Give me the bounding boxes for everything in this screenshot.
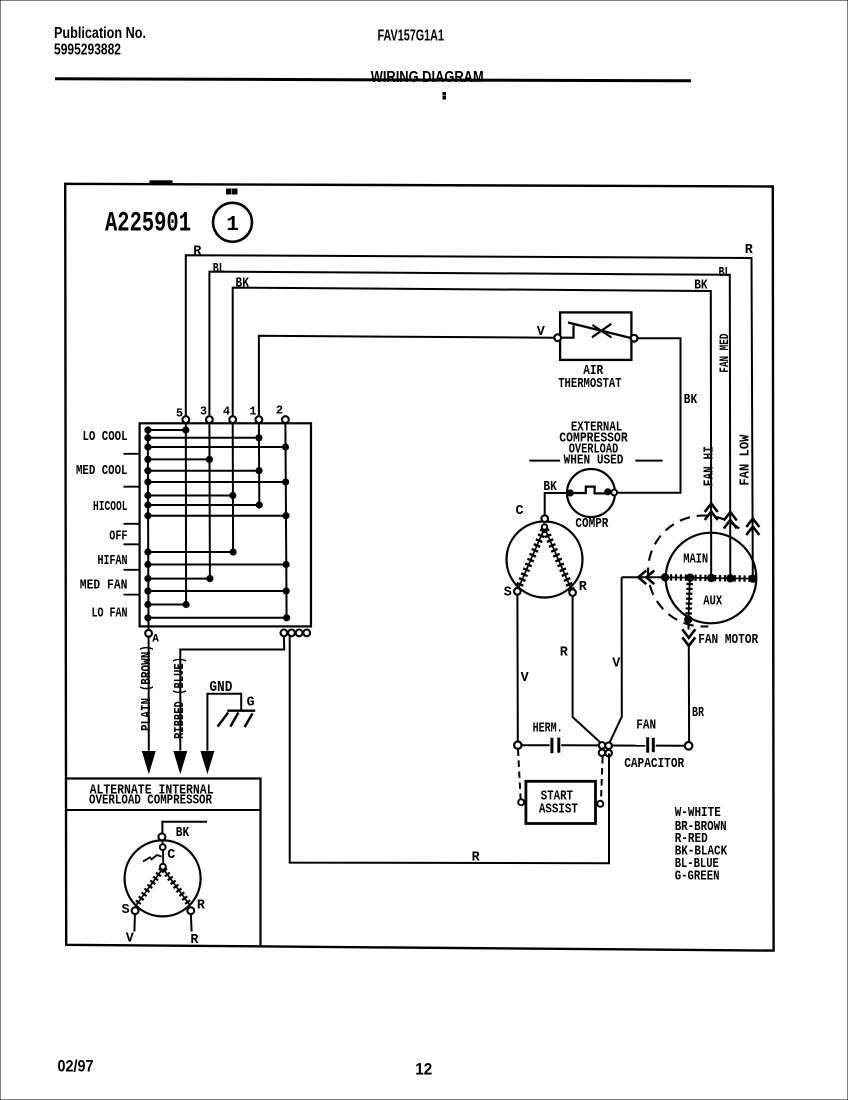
svg-text:2: 2 (276, 404, 283, 418)
capacitor junction cluster (599, 742, 606, 749)
svg-text:FAN MED: FAN MED (718, 333, 732, 372)
switch contact row 1 (148, 429, 186, 431)
svg-text:A225901: A225901 (105, 209, 191, 240)
callout circle 1 (213, 203, 252, 242)
wire ribbed (blue) (180, 636, 284, 750)
switch contact row 15 (148, 617, 287, 619)
svg-text:MED COOL: MED COOL (76, 463, 128, 479)
switch common column (147, 430, 150, 630)
svg-text:BK: BK (236, 277, 250, 292)
air thermostat right terminal (631, 335, 638, 342)
alternate overload box (66, 779, 261, 947)
herm capacitor (522, 744, 550, 746)
svg-text:MAIN: MAIN (683, 553, 708, 568)
switch group tick 4 (124, 543, 140, 545)
svg-text:FAN HI: FAN HI (702, 446, 717, 486)
scan artifact above top border (150, 181, 172, 184)
switch contact row 14 (148, 604, 186, 606)
svg-text:1: 1 (249, 405, 256, 419)
svg-text:CAPACITOR: CAPACITOR (624, 757, 685, 772)
switch contact row 9 (148, 515, 286, 517)
switch bus line from terminal 1 (258, 423, 260, 505)
svg-text:BK: BK (694, 279, 708, 294)
header rule (55, 79, 691, 81)
herm terminal (514, 742, 521, 749)
svg-text:R: R (193, 244, 202, 259)
alternate motor BK stub (162, 822, 207, 834)
svg-text:BK: BK (176, 826, 190, 841)
alternate motor circle (125, 840, 201, 916)
svg-text:A: A (152, 634, 159, 646)
alternate motor terminal R (187, 907, 194, 914)
wire V to fan main (left) (622, 576, 666, 578)
svg-text:ASSIST: ASSIST (539, 802, 578, 817)
compressor start winding (545, 530, 571, 591)
svg-text:G: G (247, 695, 255, 710)
start assist left lead (dashed) (518, 750, 521, 799)
svg-text:FAN LOW: FAN LOW (738, 434, 753, 486)
svg-text:WIRING DIAGRAM: WIRING DIAGRAM (371, 69, 484, 86)
svg-text:AUX: AUX (703, 595, 723, 610)
svg-text:R: R (579, 580, 588, 595)
switch terminal 3 (206, 416, 213, 423)
svg-text:FAN MOTOR: FAN MOTOR (698, 633, 759, 648)
alternate motor windings (136, 870, 162, 906)
switch bus line from terminal 4 (232, 423, 234, 552)
svg-text:R: R (197, 899, 206, 914)
wire R bottom run (290, 636, 609, 863)
start assist right lead (dashed) (601, 757, 603, 800)
wire terminal 1 to air thermostat (259, 336, 554, 420)
svg-text:THERMOSTAT: THERMOSTAT (558, 377, 621, 392)
switch contact row 10 (148, 551, 233, 553)
svg-text:02/97: 02/97 (58, 1057, 94, 1076)
svg-text:S: S (122, 903, 130, 918)
svg-text:WHEN USED: WHEN USED (564, 454, 624, 469)
winding tap dots (661, 574, 668, 581)
fan motor main winding (665, 577, 755, 578)
svg-text:OVERLOAD COMPRESSOR: OVERLOAD COMPRESSOR (89, 793, 213, 808)
svg-text:4: 4 (223, 405, 230, 419)
wire plain (brown) (148, 637, 150, 751)
switch contact row 2 (148, 437, 259, 439)
switch group tick 2 (124, 486, 140, 488)
svg-text:OFF: OFF (109, 529, 127, 545)
svg-text:BL: BL (719, 266, 731, 281)
svg-text:PLAIN (BROWN): PLAIN (BROWN) (140, 645, 155, 731)
fan motor aux winding (689, 578, 690, 619)
start assist box (526, 781, 596, 823)
switch terminal 2 (282, 416, 289, 423)
wire S to herm terminal (V) (516, 595, 518, 742)
switch group tick 3 (124, 523, 140, 525)
svg-text:LO COOL: LO COOL (83, 429, 128, 445)
switch bottom connector circles (281, 630, 288, 637)
svg-text:C: C (516, 504, 524, 519)
svg-text:FAV157G1A1: FAV157G1A1 (378, 28, 445, 45)
fan capacitor (612, 745, 645, 747)
svg-text:G-GREEN: G-GREEN (675, 870, 720, 885)
switch contact row 8 (148, 504, 259, 506)
svg-text:R: R (560, 645, 569, 660)
svg-text:R: R (472, 851, 481, 866)
switch contact row 7 (148, 495, 233, 497)
svg-text:HERM.: HERM. (533, 721, 563, 736)
compressor terminal R (569, 589, 576, 596)
svg-text:5: 5 (176, 407, 183, 421)
svg-text:BL: BL (213, 262, 225, 277)
svg-text:BR: BR (692, 706, 705, 721)
svg-text:5995293882: 5995293882 (54, 42, 121, 59)
switch group tick 5 (124, 569, 140, 571)
wire fan V lead to junction (609, 577, 622, 744)
switch contact row 3 (148, 446, 286, 448)
svg-text:RIBBED (BLUE): RIBBED (BLUE) (173, 657, 188, 739)
fan low feed chevrons (746, 519, 759, 528)
svg-text:S: S (504, 585, 512, 600)
compressor main winding (518, 530, 544, 589)
wire overload to compressor C (545, 493, 571, 515)
wire BK: terminal 4 to fan hi feed (233, 288, 712, 578)
svg-text:12: 12 (415, 1060, 432, 1079)
svg-text:COMPR: COMPR (575, 517, 609, 532)
wire R: terminal 5 to fan low feed (186, 255, 753, 579)
main diagram border (65, 184, 773, 951)
svg-text:C: C (167, 848, 175, 863)
switch contact row 12 (148, 578, 210, 580)
compressor terminal C (541, 515, 548, 522)
svg-text:1: 1 (226, 214, 239, 237)
fan capacitor terminal (685, 742, 693, 750)
switch bus line from terminal 5 (185, 423, 187, 605)
switch terminal A (145, 630, 152, 637)
fan motor circle (666, 533, 757, 624)
switch group tick 1 (124, 453, 140, 455)
left connector chevrons (638, 571, 646, 585)
overload protector COMPR circle (567, 469, 615, 517)
fan motor housing (dashed) (648, 516, 739, 627)
switch terminal 1 (256, 416, 263, 423)
svg-text:Publication No.: Publication No. (54, 25, 146, 42)
switch terminal 5 (182, 416, 189, 423)
fan hi feed chevrons (705, 504, 718, 513)
air thermostat left terminal (554, 334, 561, 341)
switch terminal 4 (229, 416, 236, 423)
fan med feed chevrons (724, 512, 737, 521)
switch contact row 4 (148, 458, 210, 460)
air thermostat switch blade (561, 325, 573, 337)
svg-text:BK: BK (684, 393, 698, 408)
alternate motor V lead (133, 914, 136, 931)
air thermostat box (560, 312, 631, 360)
switch contact row 13 (148, 590, 286, 592)
switch contact row 5 (148, 470, 259, 472)
wire thermostat to overload (BK) (617, 338, 681, 493)
alternate motor R lead (190, 914, 193, 931)
svg-text:HICOOL: HICOOL (93, 499, 128, 515)
svg-text:HIFAN: HIFAN (98, 553, 128, 569)
selector switch box (140, 423, 311, 626)
compressor terminal S (514, 588, 521, 595)
switch group tick 6 (124, 594, 140, 596)
svg-text:LO FAN: LO FAN (92, 605, 128, 621)
svg-text:FAN: FAN (636, 719, 656, 734)
svg-text:V: V (537, 325, 546, 340)
svg-text:R: R (745, 243, 754, 258)
svg-text:V: V (126, 931, 135, 946)
compressor motor circle (507, 522, 583, 598)
svg-text:R: R (190, 933, 199, 948)
svg-text:3: 3 (200, 405, 207, 419)
alternate motor internal overload (160, 844, 166, 850)
wire R to capacitor junction (573, 596, 603, 744)
svg-text:V: V (521, 671, 530, 686)
alternate motor terminal S (132, 907, 139, 914)
svg-text:MED FAN: MED FAN (80, 577, 128, 593)
svg-text:V: V (612, 656, 621, 671)
switch bus line from terminal 2 (285, 423, 286, 618)
fan motor lead with connector (687, 621, 689, 630)
switch contact row 6 (148, 481, 286, 483)
wire BL: terminal 3 to fan med feed (209, 272, 730, 579)
switch bus line from terminal 3 (208, 423, 211, 579)
alternate motor terminal BK (158, 833, 165, 840)
switch contact row 11 (148, 564, 286, 566)
